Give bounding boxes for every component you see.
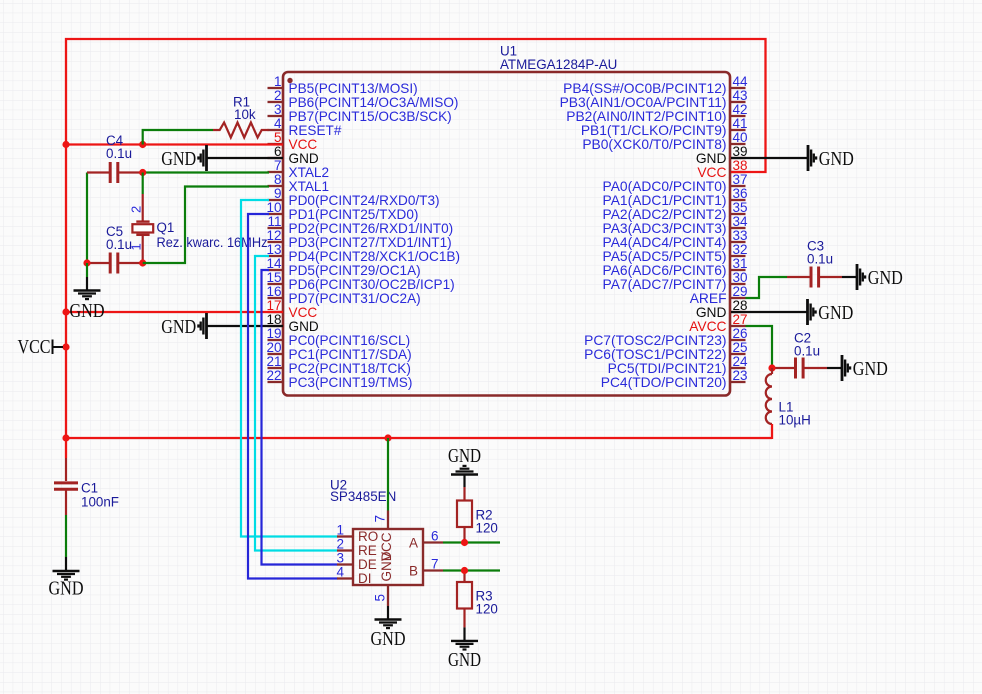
- svg-text:26: 26: [733, 326, 748, 341]
- svg-text:2: 2: [274, 88, 282, 103]
- svg-text:23: 23: [733, 368, 748, 383]
- svg-text:GND: GND: [161, 316, 196, 338]
- U2 pin 7b B stub: [423, 569, 443, 571]
- U1 pin 3 PB7(PCINT15/OC3B/SCK) stub: [268, 115, 284, 117]
- svg-text:0.1u: 0.1u: [106, 146, 132, 161]
- capacitor C2: [772, 367, 796, 369]
- svg-text:29: 29: [733, 284, 748, 299]
- svg-text:PD4(PCINT28/XCK1/OC1B): PD4(PCINT28/XCK1/OC1B): [289, 249, 460, 264]
- U1 pin 20 PC1(PCINT17/SDA) stub: [268, 353, 284, 355]
- svg-text:7: 7: [274, 158, 282, 173]
- svg-text:4: 4: [336, 565, 344, 580]
- svg-text:PD5(PCINT29/OC1A): PD5(PCINT29/OC1A): [289, 263, 421, 278]
- svg-text:PB2(AIN0/INT2/PCINT10): PB2(AIN0/INT2/PCINT10): [566, 109, 726, 124]
- svg-text:PB3(AIN1/OC0A/PCINT11): PB3(AIN1/OC0A/PCINT11): [560, 95, 727, 110]
- U2 pin 2 RE stub: [337, 549, 353, 551]
- svg-text:Q1: Q1: [157, 220, 175, 235]
- svg-text:36: 36: [733, 186, 748, 201]
- ground symbol at pin 18: [205, 313, 208, 339]
- svg-text:9: 9: [274, 186, 282, 201]
- svg-text:PC2(PCINT18/TCK): PC2(PCINT18/TCK): [289, 361, 411, 376]
- U1 pin 26 PC7(TOSC2/PCINT23) stub: [730, 339, 746, 341]
- svg-text:120: 120: [476, 602, 498, 617]
- svg-text:XTAL2: XTAL2: [289, 165, 330, 180]
- wire PD4 to U2 RE: [255, 256, 338, 551]
- wire GND from pin 39: [731, 157, 808, 159]
- wire U2 VCC to bus: [387, 438, 389, 511]
- capacitor C3: [787, 276, 811, 278]
- svg-text:1: 1: [274, 74, 282, 89]
- wire VCC to pin 5: [66, 143, 283, 145]
- svg-text:PD3(PCINT27/TXD1/INT1): PD3(PCINT27/TXD1/INT1): [289, 235, 452, 250]
- crystal Q1 top lead: [142, 173, 144, 195]
- svg-text:VCC: VCC: [18, 337, 51, 358]
- svg-text:5: 5: [373, 594, 388, 602]
- svg-text:PA3(ADC3/PCINT3): PA3(ADC3/PCINT3): [603, 221, 727, 236]
- junction XTAL2 / C4 / Q1: [139, 169, 146, 176]
- svg-text:GND: GND: [289, 319, 319, 334]
- svg-text:0.1u: 0.1u: [106, 237, 132, 252]
- junction A net / R2: [461, 539, 468, 546]
- U1 pin 9 PD0(PCINT24/RXD0/T3) stub: [268, 199, 284, 201]
- junction on VCC rail at pin5 row: [62, 141, 69, 148]
- svg-text:100nF: 100nF: [81, 495, 119, 510]
- op-amp U1 body (ATMEGA1284P-AU microcontroller): [283, 72, 730, 396]
- svg-text:19: 19: [266, 326, 281, 341]
- svg-text:1: 1: [336, 523, 344, 538]
- svg-text:GND: GND: [696, 305, 727, 320]
- U1 pin 40 PB0(XCK0/T0/PCINT8) stub: [730, 143, 746, 145]
- svg-text:XTAL1: XTAL1: [289, 179, 330, 194]
- svg-text:2: 2: [129, 206, 144, 213]
- junction B net / R3: [461, 567, 468, 574]
- svg-text:GND: GND: [818, 302, 853, 324]
- wire GND from pin 28: [731, 311, 808, 313]
- U1 pin 41 PB1(T1/CLKO/PCINT9) stub: [730, 129, 746, 131]
- U1 pin 8 XTAL1 stub: [268, 185, 284, 187]
- svg-text:5: 5: [274, 130, 282, 145]
- svg-text:0.1u: 0.1u: [807, 252, 833, 267]
- U1 pin 32 PA5(ADC5/PCINT5) stub: [730, 255, 746, 257]
- U1 pin 39 GND stub: [730, 157, 746, 159]
- svg-text:3: 3: [274, 102, 282, 117]
- U1 pin 28 GND stub: [730, 311, 746, 313]
- wire RESET net from VCC junction to R1: [143, 130, 213, 145]
- junction VCC rail / bottom bus: [62, 434, 69, 441]
- wire PD5 to U2 DE: [262, 270, 338, 565]
- U2 pin 1 RO stub: [337, 535, 353, 537]
- svg-text:11: 11: [267, 214, 281, 229]
- wire GND to pin 18: [207, 325, 284, 327]
- svg-text:7: 7: [373, 515, 388, 523]
- svg-text:PA7(ADC7/PCINT7): PA7(ADC7/PCINT7): [603, 277, 727, 292]
- svg-text:PD6(PCINT30/OC2B/ICP1): PD6(PCINT30/OC2B/ICP1): [289, 277, 455, 292]
- svg-text:VCC: VCC: [697, 165, 726, 180]
- svg-text:GND: GND: [448, 650, 481, 671]
- svg-text:PB1(T1/CLKO/PCINT9): PB1(T1/CLKO/PCINT9): [581, 123, 727, 138]
- crystal Q1: [136, 220, 149, 222]
- svg-text:PC5(TDI/PCINT21): PC5(TDI/PCINT21): [608, 361, 727, 376]
- svg-text:40: 40: [733, 130, 748, 145]
- U1 pin 13 PD4(PCINT28/XCK1/OC1B) stub: [268, 255, 284, 257]
- svg-text:3: 3: [336, 551, 344, 566]
- svg-text:7: 7: [431, 557, 439, 572]
- svg-text:22: 22: [266, 368, 281, 383]
- U1 pin 21 PC2(PCINT18/TCK) stub: [268, 367, 284, 369]
- wire R3 to ground: [463, 627, 465, 641]
- U1 pin 38 VCC stub: [730, 171, 746, 173]
- U1 pin 22 PC3(PCINT19/TMS) stub: [268, 381, 284, 383]
- svg-text:20: 20: [266, 340, 281, 355]
- svg-text:2: 2: [336, 537, 344, 552]
- svg-text:GND: GND: [371, 629, 406, 650]
- U1 pin 11 PD2(PCINT26/RXD1/INT0) stub: [268, 227, 284, 229]
- svg-text:PC6(TOSC1/PCINT22): PC6(TOSC1/PCINT22): [584, 347, 726, 362]
- capacitor C4: [87, 171, 110, 173]
- svg-text:ATMEGA1284P-AU: ATMEGA1284P-AU: [500, 57, 617, 72]
- U2 pin 5 GND stub: [387, 585, 389, 606]
- capacitor C5: [87, 262, 110, 264]
- svg-text:VCC: VCC: [289, 305, 318, 320]
- ground symbol below C5: [74, 289, 101, 291]
- transistor U2 body (SP3485EN RS-485 transceiver): [353, 529, 423, 585]
- svg-text:GND: GND: [853, 358, 888, 380]
- U1 pin 14 PD5(PCINT29/OC1A) stub: [268, 269, 284, 271]
- wire GND to pin 6: [207, 157, 284, 159]
- svg-text:6: 6: [431, 529, 439, 544]
- U2 pin 7 VCC stub: [387, 511, 389, 530]
- wire XTAL2 net to pin 7: [143, 171, 269, 173]
- U1 pin 12 PD3(PCINT27/TXD1/INT1) stub: [268, 241, 284, 243]
- ground symbol at pin 28: [806, 299, 809, 325]
- svg-text:31: 31: [733, 256, 748, 271]
- svg-text:37: 37: [733, 172, 748, 187]
- ground symbol at C2: [841, 355, 844, 381]
- U1 pin 10 PD1(PCINT25/TXD0) stub: [268, 213, 284, 215]
- svg-text:GND: GND: [49, 579, 84, 600]
- svg-text:C1: C1: [81, 481, 98, 496]
- svg-text:120: 120: [476, 521, 498, 536]
- svg-text:PC4(TDO/PCINT20): PC4(TDO/PCINT20): [601, 375, 727, 390]
- capacitor C1: [65, 458, 67, 481]
- U1 pin 15 PD6(PCINT30/OC2B/ICP1) stub: [268, 283, 284, 285]
- U1 pin 31 PA6(ADC6/PCINT6) stub: [730, 269, 746, 271]
- wire C3 to ground: [842, 276, 857, 278]
- resistor R3: [463, 571, 465, 583]
- wire VCC bottom bus: [66, 437, 772, 439]
- ground symbol below C1: [53, 570, 80, 572]
- ground symbol below R3: [451, 640, 478, 642]
- wire XTAL1 net: [143, 187, 269, 264]
- wire RS485 A net: [443, 541, 500, 543]
- wire RS485 B net: [443, 569, 500, 571]
- U1 pin 30 PA7(ADC7/PCINT7) stub: [730, 283, 746, 285]
- U1 pin 37 PA0(ADC0/PCINT0) stub: [730, 185, 746, 187]
- svg-text:PB5(PCINT13/MOSI): PB5(PCINT13/MOSI): [289, 81, 418, 96]
- junction C5 / Q1 / XTAL1: [139, 259, 146, 266]
- wire RXD0 (PD0 to U2 RO): [241, 200, 338, 537]
- svg-text:35: 35: [733, 200, 748, 215]
- ground symbol at pin 39: [807, 145, 810, 171]
- svg-text:21: 21: [266, 354, 281, 369]
- wire AREF net: [746, 277, 788, 298]
- U1 pin 1 origin marker: [287, 78, 292, 83]
- wire AVCC net: [746, 326, 773, 368]
- svg-text:PA5(ADC5/PCINT5): PA5(ADC5/PCINT5): [603, 249, 727, 264]
- svg-text:34: 34: [733, 214, 749, 229]
- svg-text:GND: GND: [70, 301, 105, 322]
- svg-text:PD7(PCINT31/OC2A): PD7(PCINT31/OC2A): [289, 291, 421, 306]
- svg-text:33: 33: [733, 228, 748, 243]
- svg-text:SP3485EN: SP3485EN: [330, 489, 396, 504]
- svg-text:VCC: VCC: [289, 137, 318, 152]
- U1 pin 36 PA1(ADC1/PCINT1) stub: [730, 199, 746, 201]
- svg-text:RE: RE: [358, 543, 377, 558]
- U1 pin 6 GND stub: [268, 157, 284, 159]
- svg-text:41: 41: [733, 116, 748, 131]
- svg-text:GND: GND: [161, 148, 196, 170]
- junction VCC rail pin17 row: [62, 308, 69, 315]
- U1 pin 43 PB3(AIN1/OC0A/PCINT11) stub: [730, 101, 746, 103]
- svg-text:A: A: [409, 536, 418, 551]
- svg-text:0.1u: 0.1u: [794, 344, 820, 359]
- svg-text:PB4(SS#/OC0B/PCINT12): PB4(SS#/OC0B/PCINT12): [563, 81, 726, 96]
- svg-text:PC1(PCINT17/SDA): PC1(PCINT17/SDA): [289, 347, 412, 362]
- U1 pin 34 PA3(ADC3/PCINT3) stub: [730, 227, 746, 229]
- svg-text:GND: GND: [868, 267, 903, 289]
- svg-text:4: 4: [274, 116, 282, 131]
- U1 pin 4 RESET# stub: [268, 129, 284, 131]
- U1 pin 18 GND stub: [268, 325, 284, 327]
- wire XTAL2 branch left vertical: [86, 173, 88, 264]
- svg-text:12: 12: [266, 228, 281, 243]
- wire VCC to pin 17: [66, 311, 283, 313]
- U1 pin 23 PC4(TDO/PCINT20) stub: [730, 381, 746, 383]
- svg-text:27: 27: [733, 312, 748, 327]
- ground symbol at C3: [856, 264, 859, 290]
- svg-text:GND: GND: [819, 148, 854, 170]
- svg-text:Rez. kwarc. 16MHz: Rez. kwarc. 16MHz: [157, 235, 268, 250]
- svg-text:RO: RO: [358, 529, 378, 544]
- wire U2 GND drop: [387, 606, 389, 619]
- svg-text:DI: DI: [358, 571, 372, 586]
- svg-text:PD0(PCINT24/RXD0/T3): PD0(PCINT24/RXD0/T3): [289, 193, 440, 208]
- ground symbol at pin 6: [205, 145, 208, 171]
- U1 pin 42 PB2(AIN0/INT2/PCINT10) stub: [730, 115, 746, 117]
- Q1 bottom lead: [142, 235, 144, 263]
- wire VCC left rail down: [65, 145, 67, 459]
- svg-text:GND: GND: [289, 151, 319, 166]
- svg-text:10k: 10k: [234, 107, 256, 122]
- U1 pin 24 PC5(TDI/PCINT21) stub: [730, 367, 746, 369]
- svg-text:PB0(XCK0/T0/PCINT8): PB0(XCK0/T0/PCINT8): [582, 137, 726, 152]
- svg-text:PB6(PCINT14/OC3A/MISO): PB6(PCINT14/OC3A/MISO): [289, 95, 459, 110]
- U1 pin 16 PD7(PCINT31/OC2A) stub: [268, 297, 284, 299]
- U2 pin 3 DE stub: [337, 563, 353, 565]
- svg-text:PD2(PCINT26/RXD1/INT0): PD2(PCINT26/RXD1/INT0): [289, 221, 454, 236]
- svg-text:PD1(PCINT25/TXD0): PD1(PCINT25/TXD0): [289, 207, 419, 222]
- inductor L1: [771, 368, 773, 374]
- svg-text:GND: GND: [379, 551, 394, 581]
- wire TXD0 (PD1 to U2 DI): [248, 214, 338, 579]
- U1 pin 27 AVCC stub: [730, 325, 746, 327]
- U1 pin 5 VCC stub: [268, 143, 284, 145]
- U2 pin 4 DI stub: [337, 577, 353, 579]
- U1 pin 33 PA4(ADC4/PCINT4) stub: [730, 241, 746, 243]
- wire C2 to ground: [827, 367, 842, 369]
- U1 pin 35 PA2(ADC2/PCINT2) stub: [730, 213, 746, 215]
- svg-text:44: 44: [733, 74, 749, 89]
- svg-text:30: 30: [733, 270, 748, 285]
- svg-text:AREF: AREF: [690, 291, 727, 306]
- svg-text:PC0(PCINT16/SCL): PC0(PCINT16/SCL): [289, 333, 411, 348]
- U1 pin 44 PB4(SS#/OC0B/PCINT12) stub: [730, 87, 746, 89]
- wire C1 to ground: [65, 515, 67, 557]
- svg-text:DE: DE: [358, 557, 377, 572]
- svg-text:8: 8: [274, 172, 282, 187]
- svg-text:42: 42: [733, 102, 748, 117]
- svg-text:PA0(ADC0/PCINT0): PA0(ADC0/PCINT0): [603, 179, 727, 194]
- svg-text:PA1(ADC1/PCINT1): PA1(ADC1/PCINT1): [603, 193, 727, 208]
- svg-text:RESET#: RESET#: [289, 123, 342, 138]
- U1 pin 29 AREF stub: [730, 297, 746, 299]
- ground symbol below U2: [375, 618, 402, 620]
- U2 pin 6 A stub: [423, 541, 443, 543]
- wire VCC top loop from left rail to pin 38: [66, 39, 766, 172]
- U1 pin 25 PC6(TOSC1/PCINT22) stub: [730, 353, 746, 355]
- U1 pin 7 XTAL2 stub: [268, 171, 284, 173]
- svg-text:10µH: 10µH: [779, 413, 811, 428]
- svg-text:43: 43: [733, 88, 748, 103]
- svg-text:PB7(PCINT15/OC3B/SCK): PB7(PCINT15/OC3B/SCK): [289, 109, 452, 124]
- junction VCC / R1 branch: [139, 141, 146, 148]
- svg-text:PC7(TOSC2/PCINT23): PC7(TOSC2/PCINT23): [584, 333, 726, 348]
- svg-text:24: 24: [733, 354, 749, 369]
- junction bottom bus / U2 supply branch: [384, 434, 391, 441]
- svg-text:PC3(PCINT19/TMS): PC3(PCINT19/TMS): [289, 375, 413, 390]
- junction C5 / gnd branch: [83, 259, 90, 266]
- svg-text:GND: GND: [448, 446, 481, 467]
- wire crystal ground drop: [86, 263, 88, 277]
- svg-text:GND: GND: [696, 151, 727, 166]
- svg-text:25: 25: [733, 340, 748, 355]
- svg-text:PA2(ADC2/PCINT2): PA2(ADC2/PCINT2): [603, 207, 727, 222]
- svg-text:16: 16: [266, 284, 281, 299]
- U1 pin 2 PB6(PCINT14/OC3A/MISO) stub: [268, 101, 284, 103]
- resistor R1: [213, 123, 269, 138]
- svg-text:PA4(ADC4/PCINT4): PA4(ADC4/PCINT4): [603, 235, 727, 250]
- svg-text:B: B: [409, 564, 418, 579]
- U1 pin 1 PB5(PCINT13/MOSI) stub: [268, 87, 284, 89]
- U1 pin 17 VCC stub: [268, 311, 284, 313]
- resistor R2: [463, 487, 465, 501]
- U1 pin 19 PC0(PCINT16/SCL) stub: [268, 339, 284, 341]
- svg-text:PA6(ADC6/PCINT6): PA6(ADC6/PCINT6): [603, 263, 727, 278]
- svg-text:15: 15: [266, 270, 281, 285]
- svg-text:AVCC: AVCC: [689, 319, 726, 334]
- wire L1 to VCC bus: [771, 424, 773, 439]
- junction VCC rail / VCC supply flag: [62, 343, 69, 350]
- svg-text:32: 32: [733, 242, 748, 257]
